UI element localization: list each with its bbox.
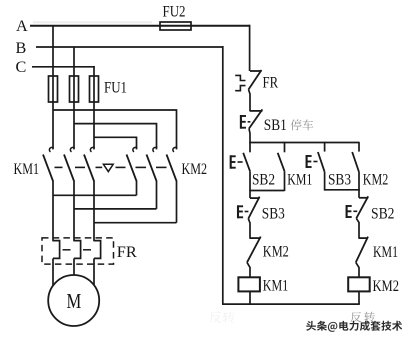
wire bottom rail xyxy=(222,303,360,305)
contactor KM2 main pole 3 contact xyxy=(167,155,177,182)
wire phase C drop (corner from C to KM1 pole 3) xyxy=(93,66,95,149)
pushbutton SB1 stop (NC) xyxy=(250,110,262,112)
fuse FU2 xyxy=(160,22,191,30)
FR heater linkage dashes xyxy=(63,249,71,251)
thermal overload FR heater 1 xyxy=(53,241,60,259)
pushbutton SB3 interlock (NC, left branch) xyxy=(249,190,251,198)
watermark 头条@电力成套技术 xyxy=(306,321,316,331)
wire FR to motor W xyxy=(93,258,95,285)
wire branch B to KM2 pole 2 xyxy=(74,124,157,150)
contact KM1 auxiliary self-hold (NO) xyxy=(284,142,286,153)
svg-text:KM1: KM1 xyxy=(263,277,289,294)
svg-text:M: M xyxy=(67,290,82,313)
wire branch A to KM2 pole 3 xyxy=(53,110,177,149)
contact KM1 interlock (NC, right branch) xyxy=(359,237,368,239)
wire bottom of SB2/KM1 parallel pair xyxy=(250,190,285,192)
linkage marker (triangle) xyxy=(103,164,113,171)
svg-text:A: A xyxy=(16,17,28,35)
contactor KM2 main pole 2 terminal hook xyxy=(153,147,157,152)
pushbutton SB2 forward start (NO) xyxy=(249,142,251,153)
pushbutton SB3 reverse start (NO) xyxy=(324,142,326,152)
wire phase B drop (node from B to KM1 pole 2) xyxy=(73,47,75,149)
phase line B xyxy=(36,46,223,48)
coil KM1 xyxy=(238,277,260,291)
svg-text:KM2: KM2 xyxy=(363,172,389,189)
svg-text:KM2: KM2 xyxy=(182,161,208,178)
svg-text:KM2: KM2 xyxy=(373,278,400,295)
wire bottom of SB3/KM2 parallel pair xyxy=(325,189,359,191)
label 反转 (reverse) xyxy=(351,312,362,322)
thermal overload FR heater 3 xyxy=(94,241,101,259)
svg-text:SB1: SB1 xyxy=(264,117,287,134)
svg-text:FR: FR xyxy=(263,75,279,92)
svg-text:FU2: FU2 xyxy=(163,4,186,21)
wire crossover KM2 pole3 to phase-C node xyxy=(94,222,177,224)
contactor KM1 main pole 2 terminal hook xyxy=(70,147,74,152)
wire KM2 coil to bottom rail xyxy=(358,291,360,304)
contact FR normally-closed (control) xyxy=(250,70,262,72)
svg-text:SB2: SB2 xyxy=(252,172,275,189)
pushbutton SB2 interlock (NC, right branch) xyxy=(358,189,360,198)
fuse FU1 pole 2 xyxy=(70,76,79,102)
contactor KM2 main pole 3 terminal hook xyxy=(173,147,177,152)
wire KM1 pole 2 lower xyxy=(73,181,75,242)
contactor KM1 main pole 2 contact xyxy=(64,155,74,182)
wire FR to motor U xyxy=(52,258,54,286)
wire KM2 pole 2 lower xyxy=(156,181,158,209)
svg-text:KM1: KM1 xyxy=(373,244,398,261)
wire crossover KM2 pole1 to phase-A node xyxy=(53,194,137,196)
wire branch C to KM2 pole 1 xyxy=(94,137,137,149)
contactor KM2 main pole 1 contact xyxy=(127,155,137,182)
contact KM2 interlock (NC, left branch) xyxy=(250,237,261,239)
thermal overload FR outline (dashed box) xyxy=(42,238,114,264)
contact KM2 auxiliary self-hold (NO) xyxy=(358,142,360,152)
wire KM1 pole 1 lower xyxy=(52,181,54,242)
contactor KM1 main pole 1 terminal hook xyxy=(49,147,53,152)
fuse FU1 pole 1 xyxy=(49,76,58,102)
ghost smudge above line A xyxy=(33,21,152,23)
thermal overload FR heater 2 xyxy=(74,241,81,259)
ghost text near bottom center xyxy=(209,312,221,323)
phase line A xyxy=(30,25,250,27)
svg-text:SB3: SB3 xyxy=(262,206,285,223)
fuse FU1 pole 3 xyxy=(90,76,99,102)
wire crossover KM2 pole2 to phase-B node xyxy=(74,208,157,210)
wire KM1 pole 3 lower xyxy=(93,181,95,242)
svg-text:FR: FR xyxy=(117,244,137,261)
coil KM2 xyxy=(348,277,370,291)
label 停车 (stop) xyxy=(291,119,302,130)
contactor KM1 main pole 1 contact xyxy=(43,155,53,182)
phase line C xyxy=(32,66,95,68)
wire junction below SB1 (feed line) xyxy=(250,142,359,144)
svg-text:KM1: KM1 xyxy=(287,172,312,189)
mechanical linkage (dashed) xyxy=(55,166,63,168)
contactor KM2 main pole 1 terminal hook xyxy=(133,147,137,152)
wire KM2 pole 3 lower xyxy=(176,181,178,223)
contactor KM1 main pole 3 terminal hook xyxy=(90,147,94,152)
wire FR to motor V xyxy=(73,258,75,275)
wire KM1 coil to bottom rail xyxy=(249,291,251,304)
svg-text:FU1: FU1 xyxy=(104,80,127,97)
svg-text:KM2: KM2 xyxy=(263,244,289,261)
svg-text:KM1: KM1 xyxy=(14,161,40,178)
motor M xyxy=(48,275,99,326)
wire line B to control (left rail) xyxy=(222,46,224,304)
wire KM2 pole 1 lower xyxy=(136,181,138,196)
contactor KM2 main pole 2 contact xyxy=(147,155,157,182)
contactor KM1 main pole 3 contact xyxy=(84,155,94,182)
svg-text:C: C xyxy=(16,58,27,76)
svg-text:SB2: SB2 xyxy=(371,206,395,223)
svg-text:SB3: SB3 xyxy=(328,172,351,189)
wire phase A drop (node from A to KM1 pole 1) xyxy=(52,26,54,150)
svg-text:B: B xyxy=(16,39,27,57)
wire line A to control (right rail top) xyxy=(249,25,251,71)
